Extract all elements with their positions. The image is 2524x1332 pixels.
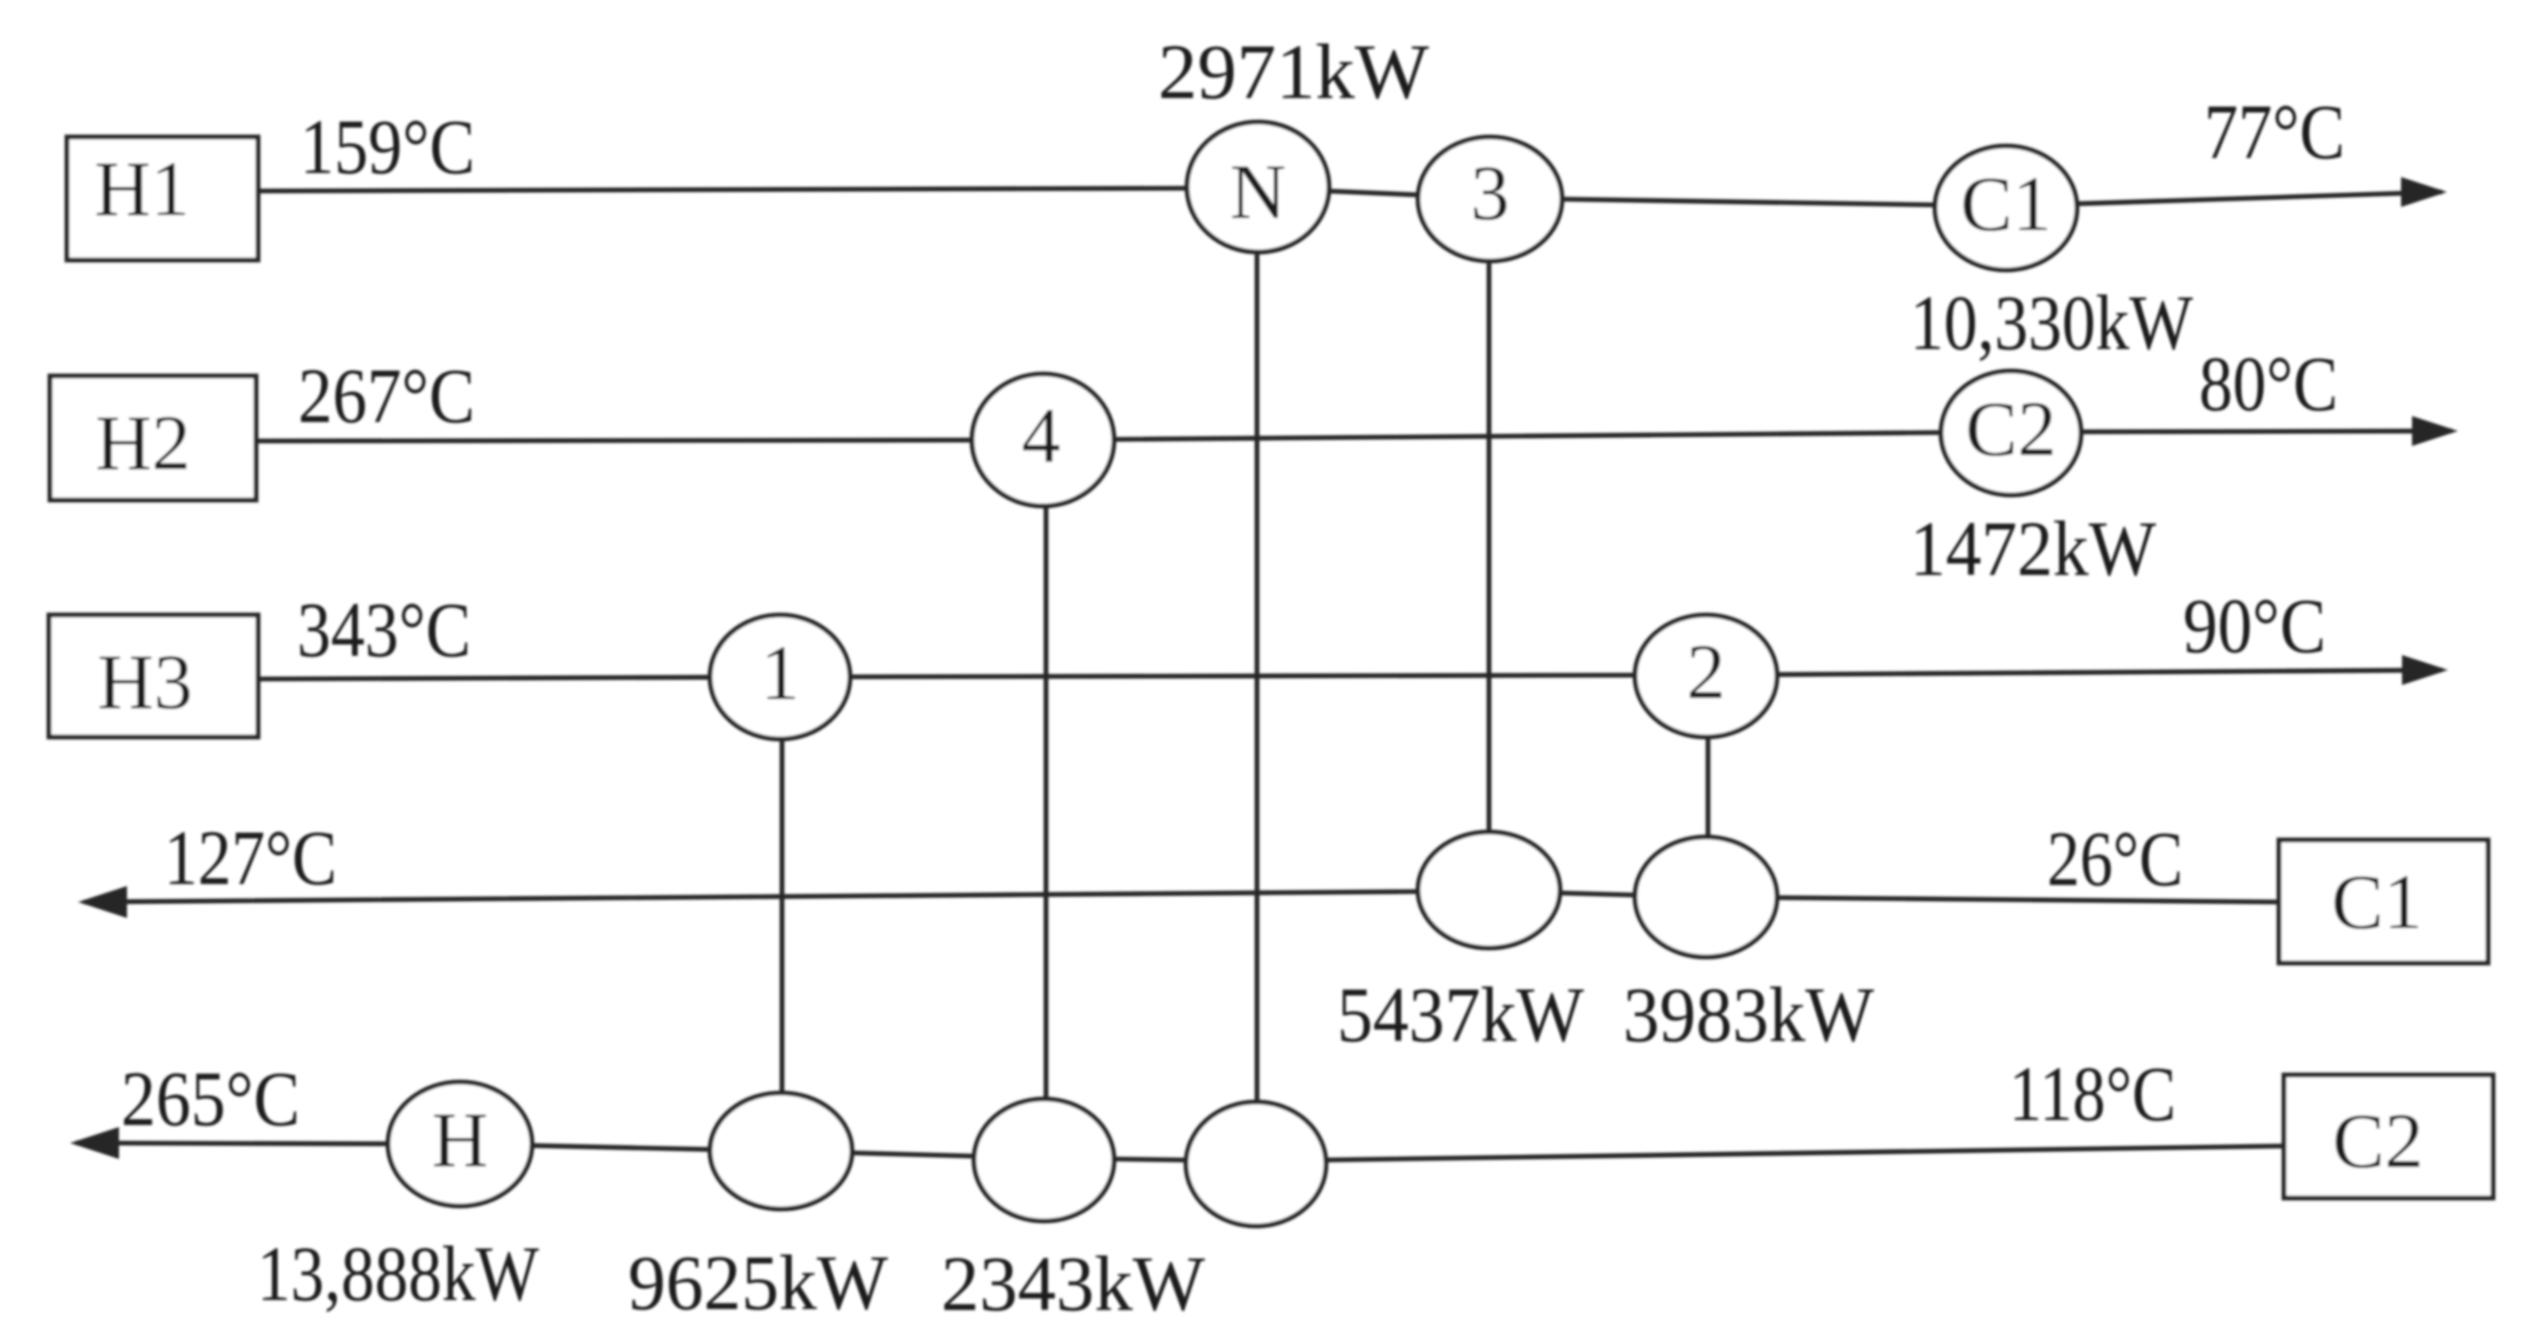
arrow H2 right [2412,416,2458,446]
wire vertical exchanger 1 [780,677,785,1151]
box C1 (right) [2279,840,2488,963]
svg-text:343°C: 343°C [297,586,471,673]
arrow C2 left [70,1127,119,1159]
svg-text:2343kW: 2343kW [941,1240,1205,1327]
svg-text:118°C: 118°C [2009,1050,2176,1137]
svg-text:H: H [432,1096,488,1183]
svg-text:C2: C2 [1965,385,2056,472]
svg-text:77°C: 77°C [2204,88,2345,175]
svg-text:267°C: 267°C [298,352,475,439]
arrow C1 left [78,886,127,918]
wire vertical exchanger 2 [1706,676,1711,897]
svg-text:26°C: 26°C [2047,815,2183,902]
svg-text:265°C: 265°C [121,1055,300,1142]
svg-text:C1: C1 [1960,160,2051,247]
exchanger N lower shell [1186,1102,1326,1226]
svg-text:90°C: 90°C [2183,582,2326,669]
exchanger 4 [972,374,1114,506]
svg-text:4: 4 [1022,392,1061,479]
box H1 [67,137,258,260]
svg-text:127°C: 127°C [164,814,337,901]
svg-text:13,888kW: 13,888kW [257,1230,539,1317]
exchanger N [1187,122,1329,252]
svg-text:N: N [1230,148,1286,235]
svg-text:C2: C2 [2332,1097,2423,1184]
cooler C1 [1935,146,2077,270]
exchanger 1 lower shell [710,1093,852,1209]
svg-text:1472kW: 1472kW [1910,505,2156,592]
svg-text:C1: C1 [2331,858,2422,945]
svg-text:2971kW: 2971kW [1158,28,1429,115]
wire vertical exchanger 3 [1487,199,1492,890]
box C2 (right) [2284,1075,2493,1198]
exchanger 4 lower shell [974,1099,1114,1221]
svg-text:5437kW: 5437kW [1337,971,1584,1058]
wire C2 stream line [76,1143,2284,1161]
wire vertical exchanger 4 [1044,440,1049,1160]
exchanger 2 [1635,615,1777,737]
cooler C2 [1941,371,2081,495]
svg-text:159°C: 159°C [300,103,475,190]
exchanger 1 [710,615,850,739]
svg-text:9625kW: 9625kW [628,1239,888,1326]
wire H3 stream line [258,670,2442,679]
exchanger 3 [1418,137,1562,261]
svg-text:3983kW: 3983kW [1623,971,1874,1058]
exchanger 2 lower shell [1635,837,1777,957]
arrow H1 right [2401,177,2447,207]
arrow H3 right [2402,655,2448,685]
wire C1 stream line [84,891,2279,902]
box H2 [50,376,256,500]
box H3 [49,615,258,737]
svg-text:80°C: 80°C [2199,340,2338,427]
heater H [388,1082,532,1206]
svg-text:3: 3 [1471,149,1510,236]
exchanger 3 lower shell [1418,832,1560,948]
wire H1 stream line [258,188,2442,206]
wire vertical exchanger N [1255,187,1260,1164]
svg-text:1: 1 [761,629,800,716]
svg-text:2: 2 [1687,628,1726,715]
wire H2 stream line [256,431,2452,441]
svg-text:H3: H3 [97,638,192,725]
svg-text:H2: H2 [95,399,190,486]
svg-text:H1: H1 [94,145,189,232]
svg-text:10,330kW: 10,330kW [1910,279,2193,366]
